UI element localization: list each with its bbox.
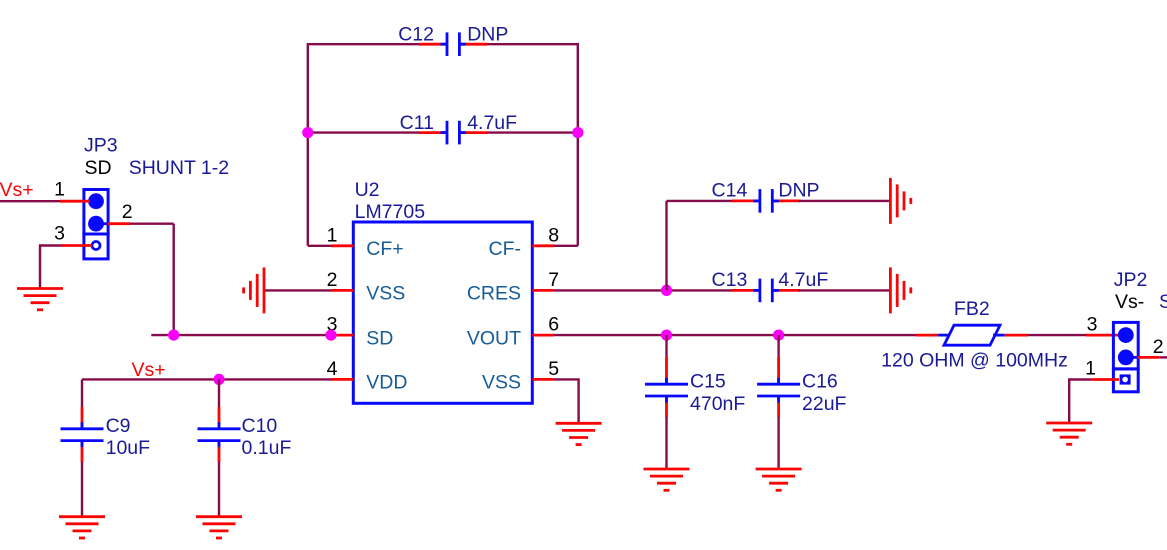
wire JP2 pin 1 to ground: [1069, 380, 1092, 423]
svg-text:C9: C9: [106, 415, 131, 437]
wire VDD Vs+ line: [82, 378, 331, 380]
svg-text:0.1uF: 0.1uF: [242, 437, 292, 459]
wire C11 rail left: [308, 131, 420, 133]
junction SD line at pin 3: [325, 330, 336, 341]
ground below JP2 pin 1: [1046, 423, 1092, 444]
svg-text:120 OHM @ 100MHz: 120 OHM @ 100MHz: [881, 349, 1068, 371]
svg-text:VSS: VSS: [482, 372, 521, 394]
svg-text:6: 6: [548, 314, 559, 336]
svg-text:1: 1: [1085, 358, 1096, 380]
wire SD line: [151, 334, 331, 336]
svg-text:Vs+: Vs+: [132, 359, 166, 381]
wire top rail from C12 to right rail: [486, 43, 577, 45]
svg-text:S: S: [1159, 291, 1167, 313]
wire CRES line: [554, 289, 734, 291]
wire left rail vertical: [307, 43, 309, 246]
connector JP2: [1113, 269, 1167, 392]
junction VOUT at C16: [773, 330, 784, 341]
svg-text:5: 5: [548, 358, 559, 380]
svg-text:JP3: JP3: [84, 135, 118, 157]
svg-text:3: 3: [54, 223, 65, 245]
capacitor C16: [757, 335, 846, 468]
capacitor C15: [645, 335, 745, 468]
svg-text:CRES: CRES: [467, 283, 521, 305]
wire C14 to ground: [799, 200, 891, 202]
ground right of C13: [890, 267, 910, 313]
svg-text:SHUNT 1-2: SHUNT 1-2: [129, 157, 229, 179]
capacitor C10: [198, 379, 292, 516]
junction on left rail at C11: [302, 127, 313, 138]
connector JP3: [84, 135, 229, 259]
wire VOUT line: [554, 334, 916, 336]
wire FB2 to JP2 pin 3: [1028, 334, 1086, 336]
wire JP3 pin2 horizontal: [130, 222, 174, 224]
pin 1 stub U2: [327, 224, 354, 246]
pin 4 stub U2: [327, 358, 354, 380]
capacitor C14: [712, 180, 820, 213]
svg-text:4.7uF: 4.7uF: [778, 269, 828, 291]
wire C14 branch horizontal: [667, 200, 734, 202]
svg-text:4: 4: [327, 358, 338, 380]
svg-text:2: 2: [122, 201, 133, 223]
wire pin 5 to ground: [554, 379, 579, 422]
capacitor C9: [61, 379, 151, 516]
ground below C9: [59, 517, 105, 538]
wire C11 rail right: [486, 131, 577, 133]
pin 3 stub JP3: [54, 223, 92, 246]
svg-text:470nF: 470nF: [690, 393, 745, 415]
svg-text:1: 1: [54, 179, 65, 201]
svg-text:Vs-: Vs-: [1115, 291, 1144, 313]
wire JP3 pin2 down to SD line: [172, 224, 174, 335]
pin 2 stub JP3: [100, 201, 133, 224]
svg-text:SD: SD: [85, 157, 112, 179]
svg-text:VSS: VSS: [366, 283, 405, 305]
pin 2 stub JP2: [1131, 336, 1164, 358]
wire pin 8 to right rail: [554, 245, 578, 247]
svg-text:2: 2: [1153, 336, 1164, 358]
ground below pin 5: [556, 423, 602, 444]
svg-text:VDD: VDD: [366, 372, 407, 394]
pin 2 stub U2: [327, 269, 354, 291]
wire C14 branch vertical: [665, 201, 667, 291]
svg-text:CF+: CF+: [366, 238, 403, 260]
pin 7 stub U2: [532, 269, 559, 291]
svg-text:CF-: CF-: [489, 238, 522, 260]
wire ground to pin 2: [264, 289, 331, 291]
svg-text:FB2: FB2: [954, 298, 990, 320]
junction VDD line at C10: [213, 374, 224, 385]
wire Vs+ to JP3 pin 1: [0, 200, 60, 202]
ground left of VSS pin 2: [244, 267, 264, 313]
svg-text:LM7705: LM7705: [355, 201, 426, 223]
svg-text:VOUT: VOUT: [467, 327, 521, 349]
pin 3 stub JP2: [1086, 314, 1120, 336]
svg-text:SD: SD: [366, 327, 393, 349]
svg-text:3: 3: [1087, 314, 1098, 336]
ground below JP3: [17, 289, 63, 310]
ground below C16: [756, 469, 802, 490]
ground right of C14: [890, 178, 910, 224]
svg-text:8: 8: [548, 224, 559, 246]
svg-text:C11: C11: [400, 112, 434, 134]
svg-text:U2: U2: [355, 179, 380, 201]
capacitor C11: [400, 112, 517, 145]
svg-text:22uF: 22uF: [802, 393, 847, 415]
svg-text:C10: C10: [242, 415, 278, 437]
wire top rail from left rail to C12: [308, 43, 420, 45]
svg-text:1: 1: [327, 224, 338, 246]
pin 3 stub U2: [327, 314, 354, 336]
junction VOUT at C15: [661, 330, 672, 341]
pin 5 stub U2: [532, 358, 559, 380]
svg-text:C15: C15: [690, 370, 726, 392]
svg-text:C12: C12: [398, 23, 434, 45]
svg-text:2: 2: [327, 269, 338, 291]
ground below C10: [196, 517, 242, 538]
junction on right rail at C11: [572, 127, 583, 138]
ferrite bead FB2: [881, 298, 1068, 371]
svg-text:DNP: DNP: [778, 180, 819, 202]
capacitor C12: [398, 23, 508, 56]
pin 1 stub JP3: [54, 179, 90, 202]
svg-text:4.7uF: 4.7uF: [467, 112, 517, 134]
junction CRES at C14 branch: [661, 285, 672, 296]
op-amp U2 body: [353, 179, 532, 403]
capacitor C13: [712, 269, 829, 302]
wire left rail to pin 1: [308, 245, 331, 247]
wire JP3 pin3 to ground: [40, 246, 62, 289]
wire right rail vertical: [577, 43, 579, 246]
svg-text:Vs+: Vs+: [0, 179, 34, 201]
ground below C15: [644, 469, 690, 490]
wire JP2 pin 2 to edge: [1160, 356, 1167, 358]
svg-text:7: 7: [548, 269, 559, 291]
junction SD line at JP3 drop: [168, 330, 179, 341]
pin 1 stub JP2: [1085, 358, 1119, 380]
pin 6 stub U2: [532, 314, 559, 336]
svg-text:10uF: 10uF: [106, 437, 151, 459]
svg-text:C16: C16: [802, 370, 838, 392]
svg-text:C14: C14: [712, 180, 748, 202]
svg-text:JP2: JP2: [1114, 269, 1148, 291]
wire C13 to ground: [799, 289, 891, 291]
svg-text:DNP: DNP: [467, 23, 508, 45]
svg-text:C13: C13: [712, 269, 748, 291]
pin 8 stub U2: [532, 224, 559, 246]
